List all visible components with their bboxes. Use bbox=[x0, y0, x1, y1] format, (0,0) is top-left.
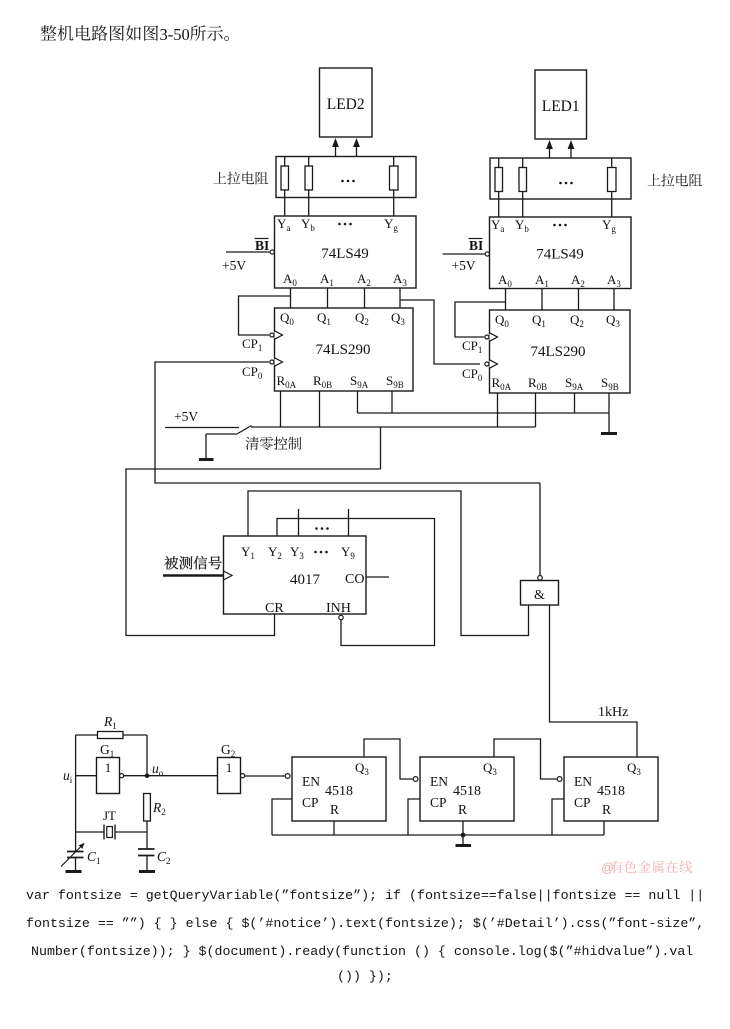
wires: Ya Yb Yg pins (right) bbox=[499, 199, 612, 217]
svg-text:CP: CP bbox=[574, 795, 591, 810]
svg-text:74LS49: 74LS49 bbox=[536, 247, 584, 263]
pull-up resistor network box (left) bbox=[276, 157, 416, 198]
svg-text:R: R bbox=[602, 802, 611, 817]
counter U5 4017 bbox=[224, 536, 367, 616]
wire: ui input bbox=[76, 775, 97, 777]
gate U6 & (NAND) bbox=[521, 581, 559, 606]
dots (more resistors right) bbox=[559, 182, 573, 185]
crystal JT bbox=[76, 825, 147, 840]
wire: Q3 #2 to EN #3 bbox=[494, 739, 557, 779]
wire: Y1 to NAND input bbox=[248, 491, 529, 636]
ground (C1) bbox=[66, 858, 82, 872]
wire: R #3 to bus bbox=[603, 821, 605, 835]
wire: Q3 (left) to CP0 of right 74LS290 bbox=[400, 300, 480, 364]
code text block bbox=[26, 888, 704, 903]
wire: gate input from 1kHz bbox=[550, 605, 638, 757]
capacitor C2 bbox=[138, 849, 155, 856]
resistor Rb (right pull-up) bbox=[519, 158, 527, 199]
wires: pull-up outputs to LED1 (arrows) bbox=[546, 140, 574, 158]
svg-text:74LS49: 74LS49 bbox=[321, 246, 369, 262]
svg-text:BI: BI bbox=[255, 238, 269, 253]
svg-text:CP: CP bbox=[302, 795, 319, 810]
label CP1 (right) bbox=[462, 338, 482, 355]
counter U9 4518 bbox=[564, 757, 658, 821]
label R1 bbox=[103, 714, 117, 731]
wires: Y3 Y9 stubs bbox=[299, 509, 349, 536]
clear switch SW (清零) bbox=[165, 426, 252, 435]
dots (more resistors) bbox=[341, 180, 355, 183]
label G2 bbox=[221, 742, 235, 759]
decoder U3 74LS49 (right) bbox=[490, 217, 632, 289]
wire: Q0 feedback to CP1 (left) bbox=[239, 296, 291, 335]
resistor Rb (left pull-up) bbox=[305, 157, 313, 198]
LED1 display bbox=[535, 70, 587, 139]
wire: R0 net down to clear loop bbox=[380, 427, 382, 469]
junction dot + ground (bus) bbox=[456, 833, 472, 846]
svg-text:EN: EN bbox=[574, 774, 592, 789]
EN bubble (4518 #2) bbox=[413, 777, 418, 782]
label C2 bbox=[157, 849, 171, 866]
wire: ground bus bbox=[272, 834, 604, 836]
variable capacitor C1 bbox=[61, 843, 85, 867]
svg-text:INH: INH bbox=[326, 601, 351, 616]
svg-text:EN: EN bbox=[430, 774, 448, 789]
wire: CO stub bbox=[366, 576, 389, 578]
clock input CP1 wedge (left 74LS290) bbox=[270, 331, 283, 339]
wire: CP #1 to bus bbox=[272, 799, 292, 835]
label CP1 (left) bbox=[242, 336, 262, 353]
svg-text:@: @ bbox=[601, 860, 614, 875]
wires: Ya Yb Yg pins to pull-ups (left) bbox=[285, 198, 394, 217]
LED2 display bbox=[320, 68, 373, 137]
label +5V (left BI) bbox=[222, 258, 246, 273]
label 上拉电阻 (right) bbox=[648, 174, 703, 187]
wire: R #1 to bus bbox=[333, 821, 335, 835]
inverter G1 bbox=[97, 758, 124, 794]
wire: CP #3 to bus bbox=[552, 799, 564, 835]
wire: R2 to crystal junction to C2 bbox=[146, 821, 148, 849]
label JT bbox=[103, 808, 116, 823]
label 清零控制 bbox=[245, 437, 301, 450]
svg-text:74LS290: 74LS290 bbox=[530, 344, 585, 360]
label R2 bbox=[152, 800, 166, 817]
svg-text:4017: 4017 bbox=[290, 572, 321, 588]
svg-text:4518: 4518 bbox=[325, 784, 353, 799]
svg-text:LED2: LED2 bbox=[327, 96, 365, 113]
svg-text:EN: EN bbox=[302, 774, 320, 789]
wire: S9A pin (right) down bbox=[574, 393, 576, 413]
svg-text:3-50: 3-50 bbox=[160, 25, 190, 44]
svg-text:1: 1 bbox=[105, 760, 112, 775]
svg-text:R: R bbox=[458, 802, 467, 817]
wire: R #2 to bus bbox=[462, 821, 464, 835]
watermark 有色金属在线 bbox=[601, 860, 692, 875]
wire: G2 out to EN #1 bbox=[245, 775, 286, 777]
label +5V (clear switch) bbox=[174, 409, 198, 424]
svg-text:+5V: +5V bbox=[174, 409, 198, 424]
clock input CP1 wedge (right 74LS290) bbox=[485, 333, 498, 341]
NAND output bubble bbox=[538, 576, 543, 581]
svg-text:R: R bbox=[330, 802, 339, 817]
label uo bbox=[152, 761, 164, 778]
svg-text:CR: CR bbox=[265, 601, 284, 616]
ground (clear switch) bbox=[199, 434, 214, 460]
wire: Q0 feedback to CP1 (right) bbox=[455, 302, 506, 337]
counter U8 4518 bbox=[420, 757, 514, 821]
wires: R0A R0B pins (right) down bbox=[498, 393, 536, 427]
svg-text:+5V: +5V bbox=[452, 258, 476, 273]
resistor Ra (right pull-up) bbox=[495, 158, 503, 199]
BI input with bubble (right 74LS49) bbox=[443, 238, 490, 256]
wires: A0-A3 to Q0-Q3 (left) bbox=[291, 288, 401, 308]
wire: measured signal input arrow bbox=[163, 574, 224, 577]
resistor Rg (left pull-up) bbox=[390, 157, 399, 198]
svg-text:JT: JT bbox=[103, 808, 116, 823]
resistor R1 bbox=[76, 732, 147, 739]
wire: clear loop to 4017 CR bbox=[126, 469, 381, 636]
label C1 bbox=[87, 849, 101, 866]
label 上拉电阻 (left) bbox=[214, 172, 269, 185]
svg-text:LED1: LED1 bbox=[542, 98, 580, 115]
EN bubble (4518 #3) bbox=[557, 777, 562, 782]
counter U4 74LS290 (right) bbox=[490, 310, 631, 393]
wire: right vertical R1 to node bbox=[146, 735, 148, 776]
svg-text:4518: 4518 bbox=[597, 784, 625, 799]
svg-text:+5V: +5V bbox=[222, 258, 246, 273]
counter U2 74LS290 (left) bbox=[275, 308, 414, 391]
wire: G1 out to node to G2 bbox=[124, 775, 218, 777]
svg-text:CP: CP bbox=[430, 795, 447, 810]
INH bubble bbox=[339, 615, 343, 619]
svg-text:&: & bbox=[534, 588, 545, 603]
svg-text:1: 1 bbox=[226, 760, 233, 775]
wire: NAND output up bbox=[539, 483, 541, 575]
wires: S9A S9B pins (left) down bbox=[358, 391, 393, 413]
label G1 bbox=[100, 742, 114, 759]
resistor Ra (left pull-up) bbox=[281, 157, 289, 198]
label 1kHz bbox=[598, 705, 628, 720]
svg-text:4518: 4518 bbox=[453, 784, 481, 799]
inverter G2 bbox=[218, 758, 245, 794]
wires: R0A R0B pins (left) down bbox=[281, 391, 320, 427]
wire: Q3 #1 to EN #2 bbox=[364, 739, 413, 779]
node uo dot bbox=[145, 773, 150, 778]
wire: CP #2 to bus bbox=[408, 799, 420, 835]
EN bubble (4518 #1) bbox=[285, 774, 290, 779]
pull-up resistor network box (right) bbox=[490, 158, 631, 199]
decoder U1 74LS49 (left) bbox=[275, 216, 417, 288]
clock wedge (4017 input) bbox=[224, 571, 233, 580]
counter U7 4518 bbox=[292, 757, 386, 821]
resistor R2 bbox=[144, 794, 151, 822]
resistor Rg (right pull-up) bbox=[608, 158, 617, 199]
title text 整机电路图如图3-50所示 bbox=[41, 25, 229, 44]
clock input CP0 wedge (right 74LS290) bbox=[485, 360, 498, 368]
label +5V (right BI) bbox=[452, 258, 476, 273]
label ui bbox=[63, 768, 73, 785]
wire: Y2 to INH bbox=[277, 519, 435, 646]
wire: NAND output to CP0 (left 74LS290) bbox=[155, 362, 540, 483]
wires: pull-up outputs to LED2 (arrows) bbox=[332, 138, 360, 157]
ground at S9B (right) bbox=[601, 393, 617, 434]
dots above 4017 bbox=[315, 527, 329, 530]
label CP0 (left) bbox=[242, 364, 263, 381]
svg-text:BI: BI bbox=[469, 238, 483, 253]
svg-text:74LS290: 74LS290 bbox=[315, 342, 370, 358]
clock input CP0 wedge (left 74LS290) bbox=[270, 358, 283, 366]
label CP0 (right) bbox=[462, 366, 483, 383]
wire: S9 net line bbox=[358, 412, 610, 414]
ground (C2) bbox=[139, 856, 155, 872]
BI input with bubble (left 74LS49) bbox=[226, 238, 274, 254]
label 被测信号 (measured signal) bbox=[164, 556, 221, 569]
wire: left feedback vertical bbox=[75, 735, 77, 852]
wire: R0 net line bbox=[251, 426, 536, 428]
svg-text:CO: CO bbox=[345, 572, 364, 587]
wires: A0-A3 to Q0-Q3 (right) bbox=[506, 289, 615, 311]
svg-text:1kHz: 1kHz bbox=[598, 705, 628, 720]
